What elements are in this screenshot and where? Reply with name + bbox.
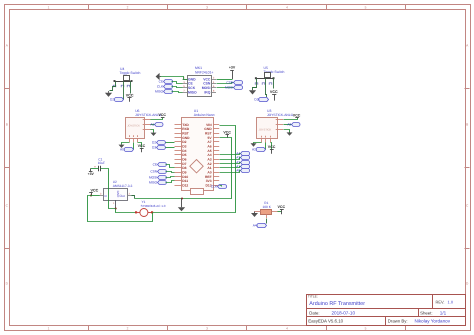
net flag A0 (nano side): [236, 169, 249, 173]
net flag A2 (nano side): [236, 161, 249, 165]
wire R1 to VCC: [278, 211, 282, 213]
power flag VCC (U3 bottom): [268, 145, 276, 154]
net flag A0 (U6): [120, 148, 134, 152]
junction VCC node: [90, 195, 92, 197]
svg-text:D3: D3: [152, 146, 156, 150]
net flag MOSI (NRF side): [225, 86, 243, 90]
wire CLK to NRF SCK: [172, 87, 183, 88]
wire U3 pin3 to ground: [284, 130, 290, 133]
wire MISO flag to nano D11: [166, 181, 175, 183]
junction U2 GND node: [115, 208, 117, 210]
wire nano 5V to VCC bus: [135, 138, 232, 199]
net flag A4 (nano side): [236, 152, 249, 156]
wire CSN flag to nano D9: [166, 172, 175, 173]
power flag VCC (R1): [278, 205, 286, 214]
regulator U2 AMS1117-3.3: [99, 180, 132, 209]
net flag A4 (R1): [253, 223, 267, 227]
svg-text:SCK: SCK: [188, 86, 196, 90]
junction bus below nano: [181, 198, 183, 200]
power flag VCC (U5): [270, 90, 278, 101]
svg-text:CSN: CSN: [226, 81, 233, 85]
svg-text:VCC: VCC: [203, 77, 211, 81]
svg-text:CE: CE: [153, 163, 157, 167]
svg-text:4: 4: [286, 5, 288, 9]
svg-text:VCC: VCC: [270, 90, 278, 94]
wire U5 pin1 to ground: [253, 79, 257, 90]
wire D2 flag to nano: [166, 142, 175, 144]
wire NRF CSN: [217, 83, 234, 84]
MCU board U1 Arduino Nano: [175, 109, 220, 195]
wire U6 bottom pin2 to A0: [133, 143, 135, 150]
svg-text:3: 3: [206, 5, 208, 9]
svg-text:5: 5: [365, 326, 367, 330]
svg-text:GND: GND: [188, 77, 196, 81]
net flag A1 (nano side): [236, 165, 249, 169]
net flag A2 (U3): [252, 148, 266, 152]
wire U3 pin2 to A3: [284, 124, 292, 126]
wire R1 wiper to A4: [266, 219, 268, 224]
power flag VCC (nano 5V): [223, 131, 231, 138]
joystick U3: [257, 109, 294, 143]
svg-text:SYMBOD8-AC 1.0: SYMBOD8-AC 1.0: [141, 204, 166, 208]
svg-text:1: 1: [48, 5, 50, 9]
svg-text:CLK: CLK: [211, 185, 218, 189]
svg-text:VCC: VCC: [91, 189, 99, 193]
svg-text:TITLE:: TITLE:: [308, 294, 318, 298]
net flag CLK: [157, 85, 173, 89]
wire nano A3: [220, 158, 241, 160]
power flag VCC (U6 bottom): [138, 144, 146, 153]
battery Y1: [136, 200, 166, 217]
svg-text:VCC: VCC: [158, 113, 166, 117]
module MK1 NRF24L01+: [183, 66, 217, 96]
svg-text:D2: D2: [110, 98, 114, 102]
wire CE to NRF: [172, 82, 183, 84]
net flag CSN (nano side): [150, 170, 166, 174]
svg-text:In: In: [105, 194, 108, 198]
svg-text:IRQ: IRQ: [204, 91, 210, 95]
wire ground node to battery: [116, 209, 137, 213]
svg-text:VCC: VCC: [268, 145, 276, 149]
ground (U4): [105, 91, 112, 97]
svg-text:A3: A3: [287, 123, 291, 127]
toggle switch U5: [255, 66, 285, 85]
wire nano D13 to CLK: [220, 186, 222, 187]
title block: [306, 294, 466, 326]
capacitor C1 10uF: [94, 157, 105, 171]
ground (NRF, pointing left): [156, 73, 161, 80]
svg-text:REV.: REV.: [436, 300, 445, 305]
wire U4 pin1 to ground: [110, 82, 116, 91]
svg-text:CE: CE: [188, 82, 193, 86]
svg-text:Arduino Nano: Arduino Nano: [194, 113, 215, 117]
wire nano A1: [220, 167, 241, 168]
wire U3 bottom pin3 to VCC: [271, 143, 272, 150]
power flag VCC (U6 right): [158, 113, 166, 117]
wire CE flag to nano D8: [166, 165, 175, 168]
svg-text:2018-07-10: 2018-07-10: [332, 311, 356, 316]
net flag A1 (U6): [150, 123, 163, 127]
ground (bus below nano): [178, 199, 185, 212]
svg-text:AMS1117-3.3: AMS1117-3.3: [113, 184, 133, 188]
svg-text:MOSI: MOSI: [202, 86, 211, 90]
svg-text:NRF24L01+: NRF24L01+: [195, 70, 213, 74]
net flag MISO: [155, 90, 173, 94]
svg-text:2: 2: [127, 5, 129, 9]
wire D3 flag to nano: [166, 147, 175, 149]
svg-text:3: 3: [206, 326, 208, 330]
svg-text:B: B: [466, 123, 468, 127]
svg-text:1: 1: [48, 326, 50, 330]
net flag D3 (nano side): [152, 146, 165, 150]
wire VCC to U2 In: [92, 195, 100, 197]
svg-text:JOYSTICK-ANLG: JOYSTICK-ANLG: [267, 113, 294, 117]
wire U3 pin1 to VCC: [284, 118, 298, 120]
svg-text:2: 2: [127, 326, 129, 330]
wire MOSI flag to nano D10: [166, 177, 175, 178]
svg-text:1/1: 1/1: [440, 311, 447, 316]
wire NRF GND pin to ground: [161, 77, 188, 80]
power flag +3V (NRF): [229, 66, 236, 79]
svg-text:A4: A4: [253, 224, 257, 228]
net flag D2 (nano side): [152, 141, 165, 145]
wire MISO to NRF: [172, 92, 183, 93]
svg-text:U4: U4: [120, 67, 124, 71]
wire +3V to C1: [91, 168, 99, 170]
svg-text:A1: A1: [150, 123, 154, 127]
wire U6 pin3 to ground: [151, 130, 154, 133]
wire nano A2: [220, 163, 241, 164]
net flag A3 (U3): [287, 123, 300, 127]
svg-text:Nikolay Yordanov: Nikolay Yordanov: [415, 319, 451, 324]
wire NRF VCC to +3V: [217, 79, 233, 81]
net flag MISO (nano side): [149, 181, 166, 185]
svg-text:CE: CE: [159, 80, 163, 84]
svg-text:GND: GND: [116, 191, 120, 199]
svg-text:JOYSTICK: JOYSTICK: [127, 124, 140, 127]
net flag CE (nano side): [153, 163, 167, 167]
svg-text:A0: A0: [120, 148, 124, 152]
svg-text:VCC: VCC: [293, 113, 301, 117]
svg-text:B: B: [6, 123, 8, 127]
svg-text:CLK: CLK: [157, 85, 164, 89]
net flag MOSI (nano side): [149, 176, 166, 180]
ground (U5): [249, 90, 256, 95]
wire U2 Out to bus: [132, 196, 135, 199]
net flag D3 (U5): [254, 97, 268, 101]
ground (U6 bottom): [119, 144, 125, 148]
svg-text:CSN: CSN: [203, 82, 211, 86]
net flag A3 (nano side): [236, 156, 249, 160]
power flag VCC (U4): [126, 94, 134, 102]
svg-text:10uF: 10uF: [98, 161, 105, 165]
wire U6 pin2 to A1: [151, 124, 155, 126]
wire U4 pin2: [123, 82, 125, 100]
wire U6 pin1 to VCC: [151, 118, 163, 120]
wire C1 to ground node: [101, 169, 116, 209]
ground (U3 right): [287, 132, 293, 136]
svg-text:Toggle Switch: Toggle Switch: [120, 71, 141, 75]
junction battery right: [151, 211, 153, 213]
wire U6 bottom pin3 to VCC: [138, 143, 142, 148]
joystick U6: [126, 109, 162, 142]
svg-text:100 K: 100 K: [263, 205, 272, 209]
svg-text:VCC: VCC: [138, 144, 146, 148]
svg-text:CSN: CSN: [150, 170, 157, 174]
svg-text:1.0: 1.0: [448, 300, 454, 305]
wire U5 pin2: [266, 79, 267, 98]
svg-text:Drawn By:: Drawn By:: [388, 318, 408, 323]
svg-text:+3V: +3V: [229, 66, 236, 70]
svg-text:D3: D3: [254, 98, 258, 102]
ground (U3 bottom): [251, 143, 257, 147]
svg-text:D12: D12: [182, 183, 188, 187]
junction battery left: [135, 211, 137, 213]
svg-text:MISO: MISO: [188, 91, 197, 95]
power flag VCC (U3 right): [293, 113, 301, 117]
svg-text:MOSI: MOSI: [149, 176, 157, 180]
wire nano A0: [220, 171, 241, 173]
wire nano VIN to battery: [153, 126, 236, 213]
power flag +3V (C1): [88, 169, 95, 177]
svg-text:Sheet:: Sheet:: [420, 311, 432, 316]
wire U6 bottom pin1 to ground: [122, 143, 130, 145]
svg-text:4: 4: [286, 326, 288, 330]
wire NRF MOSI: [217, 87, 234, 89]
svg-text:MISO: MISO: [155, 90, 164, 94]
ground (R1): [251, 212, 258, 218]
wire nano A4: [220, 154, 241, 155]
svg-text:VCC: VCC: [223, 131, 231, 135]
svg-text:VCC: VCC: [278, 205, 286, 209]
toggle switch U4: [113, 67, 140, 87]
net flag CSN (NRF side): [226, 81, 242, 85]
wire U3 bottom pin2 to A2: [265, 143, 267, 150]
net flag D2 (U4): [110, 98, 123, 102]
svg-text:JOYSTICK: JOYSTICK: [259, 128, 272, 131]
wire battery loop to VCC: [88, 196, 153, 222]
svg-text:+3V: +3V: [88, 172, 95, 176]
svg-text:A2: A2: [252, 148, 256, 152]
svg-text:MISO: MISO: [149, 181, 158, 185]
svg-text:5: 5: [365, 5, 367, 9]
svg-text:Arduino RF Transmitter: Arduino RF Transmitter: [309, 301, 365, 307]
wire U4 pin3: [130, 82, 132, 94]
potentiometer R1 100K: [254, 201, 278, 218]
svg-text:D2: D2: [152, 141, 156, 145]
svg-text:Date:: Date:: [309, 311, 319, 316]
svg-text:MOSI: MOSI: [225, 86, 233, 90]
svg-text:EasyEDA V5.6.10: EasyEDA V5.6.10: [308, 319, 343, 324]
wire U3 bottom pin1 to ground: [254, 143, 262, 144]
svg-text:VCC: VCC: [126, 94, 134, 98]
net flag CE: [159, 80, 173, 84]
wire U5 pin3: [273, 79, 275, 89]
power flag VCC (U2 input): [89, 189, 98, 196]
ground (U6 right): [151, 132, 157, 136]
net flag CLK (nano D13): [211, 185, 227, 189]
